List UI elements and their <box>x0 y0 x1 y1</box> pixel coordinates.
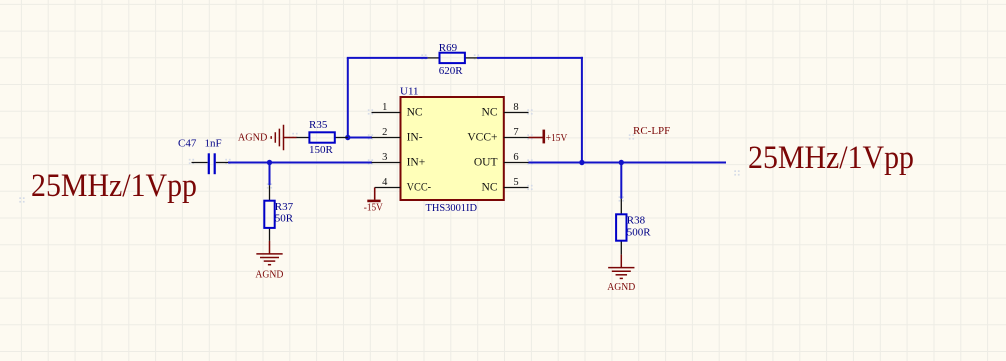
wire: feedback top right segment <box>477 57 583 59</box>
resistor R35 <box>297 132 348 142</box>
svg-text:5: 5 <box>513 177 518 188</box>
ground AGND under R38 <box>607 255 635 293</box>
svg-text:2: 2 <box>382 127 387 138</box>
pin 8 (NC) <box>482 102 529 119</box>
pin 5 (NC) <box>482 177 529 194</box>
junction node at output/feedback <box>579 160 584 165</box>
svg-text:C47: C47 <box>178 138 197 150</box>
svg-text:IN+: IN+ <box>407 157 426 169</box>
svg-text:6: 6 <box>513 152 518 163</box>
resistor R38 <box>616 199 626 255</box>
pin 1 (NC) <box>372 102 423 119</box>
svg-text:25MHz/1Vpp: 25MHz/1Vpp <box>748 140 914 176</box>
svg-text:150R: 150R <box>309 144 334 156</box>
svg-text:THS3001ID: THS3001ID <box>426 202 478 214</box>
pin 7 (VCC+) <box>467 127 528 144</box>
svg-text:AGND: AGND <box>607 281 635 293</box>
junction node at output/R38 <box>619 160 624 165</box>
wire: R37 tap vertical <box>269 163 271 186</box>
wire: feedback top left segment <box>347 57 428 59</box>
junction node at R35/IN- <box>345 135 350 140</box>
svg-text:R37: R37 <box>275 201 294 213</box>
svg-text:50R: 50R <box>275 213 294 225</box>
pin 4 (VCC-) <box>375 177 432 194</box>
svg-text:R69: R69 <box>439 42 458 54</box>
wire: feedback right vertical <box>581 57 583 163</box>
svg-text:+15V: +15V <box>546 132 568 144</box>
svg-text:1: 1 <box>382 102 387 113</box>
svg-text:7: 7 <box>513 127 518 138</box>
svg-text:-15V: -15V <box>364 202 383 214</box>
wire: output wire <box>529 162 727 164</box>
svg-text:3: 3 <box>382 152 387 163</box>
resistor R69 <box>428 53 477 63</box>
pin 3 (IN+) <box>372 152 426 169</box>
wire: junction to IN- pin2 <box>348 137 372 139</box>
svg-text:AGND: AGND <box>238 132 268 144</box>
power +15V <box>529 130 568 144</box>
pin 2 (IN-) <box>372 127 423 144</box>
wire: feedback left vertical <box>347 58 349 138</box>
svg-text:25MHz/1Vpp: 25MHz/1Vpp <box>31 168 197 204</box>
resistor R37 <box>264 185 274 241</box>
svg-text:1nF: 1nF <box>205 138 222 150</box>
svg-text:8: 8 <box>513 102 518 113</box>
svg-text:NC: NC <box>482 107 498 119</box>
capacitor C47 <box>192 153 229 174</box>
svg-text:500R: 500R <box>627 226 652 238</box>
svg-text:4: 4 <box>382 177 388 188</box>
svg-text:RC-LPF: RC-LPF <box>633 125 670 137</box>
svg-text:R35: R35 <box>309 119 328 131</box>
svg-text:U11: U11 <box>400 85 419 97</box>
ground AGND at R35 input <box>238 125 297 151</box>
svg-text:VCC-: VCC- <box>407 182 432 194</box>
svg-text:620R: 620R <box>439 65 464 77</box>
svg-text:OUT: OUT <box>474 157 498 169</box>
op-amp U11 body <box>401 97 504 200</box>
svg-text:NC: NC <box>482 182 498 194</box>
ground AGND under R37 <box>255 241 283 280</box>
svg-text:VCC+: VCC+ <box>467 132 497 144</box>
wire: R38 tap vertical <box>620 163 622 199</box>
power -15V <box>364 188 383 214</box>
svg-text:IN-: IN- <box>407 132 423 144</box>
svg-text:AGND: AGND <box>255 268 283 280</box>
junction node at C47/R37 <box>267 160 272 165</box>
pin 6 (OUT) <box>474 152 529 169</box>
svg-text:R38: R38 <box>627 215 646 227</box>
svg-text:NC: NC <box>407 107 423 119</box>
wire: C47 output to IN+ pin3 <box>228 162 372 164</box>
